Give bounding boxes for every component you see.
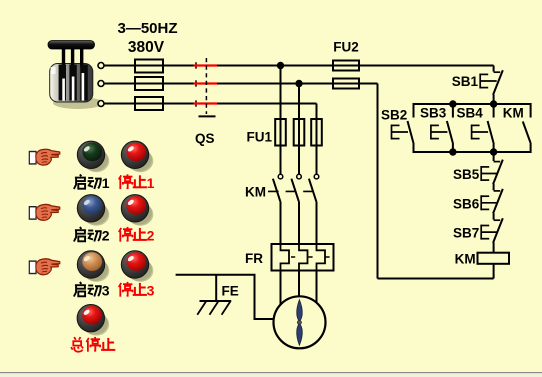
label SB4 [457, 106, 484, 121]
svg-text:KM: KM [245, 185, 266, 200]
svg-text:FU1: FU1 [246, 130, 272, 145]
source terminal L1 [98, 63, 104, 69]
3-phase source graphic [48, 41, 103, 110]
wire motor branch column 2 [298, 84, 300, 175]
wire phase L2 [104, 83, 378, 85]
svg-text:SB1: SB1 [452, 74, 479, 89]
label SB6 [453, 196, 480, 211]
coil KM [478, 253, 510, 279]
pushbutton SB3 NO [431, 121, 453, 152]
wire control left rail [377, 84, 379, 279]
label KM main [245, 185, 266, 200]
motor M circle [274, 296, 326, 348]
ground symbol [197, 301, 231, 315]
svg-text:FR: FR [245, 251, 263, 266]
FR linkage dashes [291, 256, 330, 258]
wire L1 drop to SB1 [493, 66, 495, 72]
wire parallel bottom bar [414, 143, 531, 153]
svg-text:3: 3 [102, 283, 110, 299]
svg-text:SB4: SB4 [457, 106, 484, 121]
label FU1 [246, 130, 272, 145]
svg-text:2: 2 [102, 228, 110, 244]
thermal relay FR box [272, 244, 334, 271]
fuse FU1 element 3 [311, 119, 322, 146]
label 3-50HZ [117, 20, 177, 37]
label FE [222, 284, 239, 299]
switch QS pole 1 blade [194, 62, 218, 68]
fuse FU1 element 1 [275, 119, 286, 146]
supply fuse rect L3 [135, 97, 163, 110]
bottom window edge [0, 372, 542, 377]
FR heater element 3 [317, 244, 326, 271]
button start3 orange [77, 251, 109, 282]
svg-text:KM: KM [455, 252, 476, 267]
hand pointer 2 [29, 204, 59, 220]
label qidong2 [74, 227, 110, 244]
fuse FU2 element 2 [333, 79, 359, 89]
button stop1 red [121, 141, 153, 172]
fuse FU1 element 2 [294, 119, 305, 146]
pushbutton SB1 NC [480, 70, 503, 104]
svg-text:SB6: SB6 [453, 196, 480, 211]
node bottom bar left junction [449, 148, 456, 155]
svg-text:1: 1 [102, 175, 110, 191]
label tingzhi1 [119, 174, 155, 191]
FR heater element 1 [281, 244, 290, 271]
wire FR to motor column 2 [298, 271, 300, 297]
contactor KM pole 1 [273, 174, 283, 201]
node bottom bar right junction [490, 148, 497, 155]
svg-text:SB5: SB5 [453, 167, 480, 182]
wire parallel top bar [414, 104, 531, 118]
hand pointer 3 [29, 259, 59, 275]
pushbutton SB6 NC [481, 189, 503, 220]
svg-text:QS: QS [195, 131, 215, 146]
svg-text:1: 1 [147, 175, 155, 191]
label FU2 [333, 40, 359, 55]
label SB1 [452, 74, 479, 89]
label 380V [128, 39, 165, 56]
label KM coil [455, 252, 476, 267]
wire motor branch column 3 [316, 104, 318, 175]
label tingzhi2 [119, 227, 155, 244]
wire phase L3 [104, 103, 317, 105]
contactor KM pole 3 [309, 174, 319, 201]
node junction on L2 [295, 80, 302, 87]
svg-text:SB7: SB7 [453, 226, 479, 241]
label SB3 [420, 106, 447, 121]
node junction on L1 [277, 62, 284, 69]
label qidong3 [74, 282, 110, 299]
wire FE branch [215, 275, 217, 301]
node top bar right junction [490, 100, 497, 107]
svg-text:FU2: FU2 [333, 40, 359, 55]
svg-text:2: 2 [147, 228, 155, 244]
motor propeller [297, 300, 303, 346]
svg-text:380V: 380V [128, 39, 165, 56]
contact KM aux NO [523, 122, 531, 143]
label QS [195, 131, 215, 146]
label KM aux [503, 106, 524, 121]
fuse FU2 element 1 [333, 61, 359, 71]
wire KM to FR column 3 [316, 201, 318, 244]
source terminal L3 [98, 101, 104, 107]
wire FR to motor column 1 [280, 271, 282, 305]
pushbutton SB5 NC [481, 160, 503, 191]
button stop2 red [121, 195, 153, 226]
hand pointer 1 [29, 149, 59, 165]
switch QS linkage dashed [199, 58, 216, 116]
wire motor branch column 1 [280, 66, 282, 175]
label FR [245, 251, 263, 266]
supply fuse rect L2 [135, 77, 163, 90]
button start2 blue [77, 195, 109, 226]
node top bar left junction [449, 100, 456, 107]
label zongtingzhi [71, 337, 115, 352]
switch QS pole 3 blade [194, 100, 218, 106]
pushbutton SB7 NC [481, 218, 503, 253]
supply fuse rect L1 [135, 60, 163, 73]
svg-text:SB2: SB2 [381, 108, 407, 123]
label SB5 [453, 167, 480, 182]
wire FE ground run [176, 275, 274, 319]
wire phase L1 [104, 65, 494, 67]
source terminal L2 [98, 81, 104, 87]
button allstop red [77, 305, 109, 336]
label SB2 [381, 108, 407, 123]
svg-text:3: 3 [147, 283, 155, 299]
label SB7 [453, 226, 479, 241]
label qidong1 [74, 174, 110, 191]
wire control bottom [378, 278, 494, 280]
wire KM to FR column 1 [280, 201, 282, 244]
switch QS pole 2 blade [194, 80, 218, 86]
svg-text:3—50HZ: 3—50HZ [117, 20, 177, 37]
svg-text:KM: KM [503, 106, 524, 121]
wire rail to SB5 [493, 152, 495, 161]
button stop3 red [121, 251, 153, 282]
svg-text:SB3: SB3 [420, 106, 447, 121]
FR heater element 2 [299, 244, 308, 271]
svg-text:FE: FE [222, 284, 239, 299]
pushbutton SB4 NO [472, 121, 494, 152]
contactor KM pole 2 [291, 174, 301, 201]
wire KM to FR column 2 [298, 201, 300, 244]
contactor KM linkage dashed [268, 190, 314, 192]
label tingzhi3 [119, 282, 155, 299]
pushbutton SB2 NO [392, 121, 414, 143]
button start1 green [77, 141, 109, 172]
wire FR to motor column 3 [316, 271, 318, 303]
